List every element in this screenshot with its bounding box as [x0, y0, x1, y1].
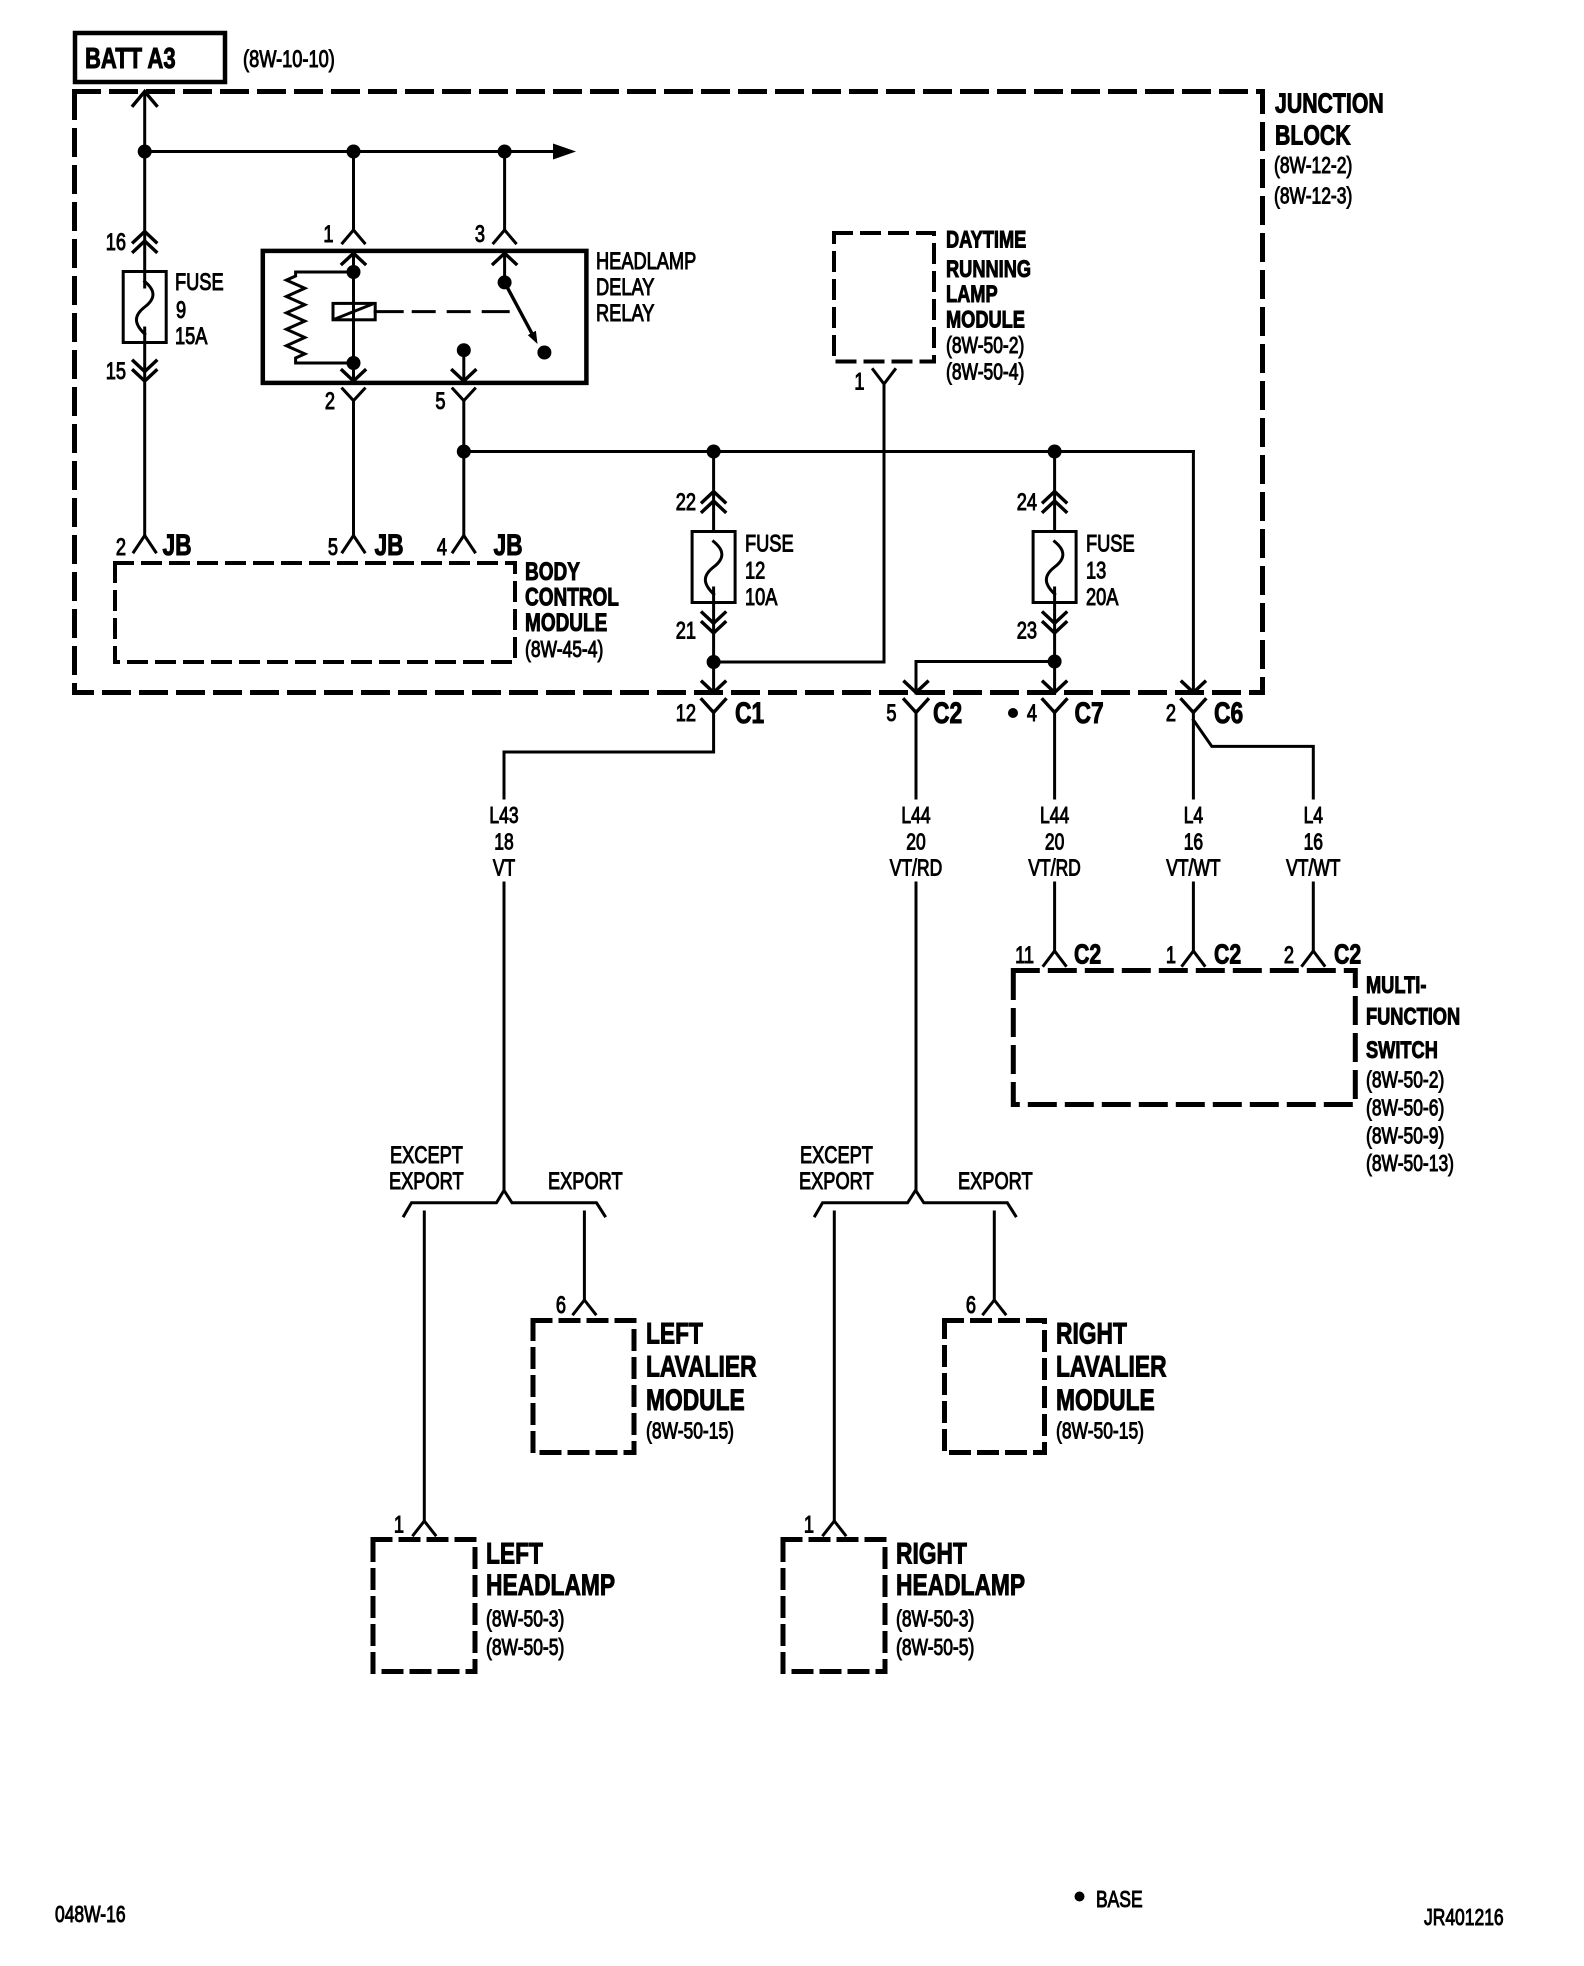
- svg-text:EXPORT: EXPORT: [958, 1168, 1033, 1195]
- svg-text:1: 1: [394, 1511, 404, 1538]
- svg-text:VT/RD: VT/RD: [890, 856, 942, 881]
- svg-text:(8W-50-5): (8W-50-5): [486, 1636, 564, 1661]
- svg-text:FUSE: FUSE: [175, 269, 224, 296]
- svg-text:2: 2: [1284, 942, 1294, 969]
- svg-text:FUSE: FUSE: [1086, 530, 1135, 557]
- svg-text:20: 20: [1045, 830, 1064, 855]
- svg-text:JUNCTION: JUNCTION: [1275, 88, 1384, 120]
- svg-text:DAYTIME: DAYTIME: [946, 226, 1026, 253]
- svg-text:(8W-12-3): (8W-12-3): [1274, 184, 1352, 209]
- svg-text:LEFT: LEFT: [486, 1536, 543, 1570]
- svg-text:11: 11: [1015, 942, 1034, 969]
- svg-text:(8W-50-2): (8W-50-2): [946, 334, 1024, 359]
- svg-text:L4: L4: [1304, 804, 1323, 829]
- svg-text:C2: C2: [933, 696, 962, 730]
- svg-text:MULTI-: MULTI-: [1366, 972, 1426, 999]
- svg-text:2: 2: [325, 388, 335, 415]
- svg-text:VT/RD: VT/RD: [1028, 856, 1080, 881]
- svg-text:EXCEPT: EXCEPT: [390, 1142, 463, 1169]
- svg-text:C7: C7: [1075, 696, 1104, 730]
- svg-text:(8W-50-15): (8W-50-15): [646, 1419, 734, 1444]
- svg-text:HEADLAMP: HEADLAMP: [896, 1568, 1025, 1602]
- svg-text:12: 12: [745, 557, 765, 584]
- svg-text:18: 18: [494, 830, 513, 855]
- svg-text:C2: C2: [1214, 939, 1241, 971]
- svg-text:15A: 15A: [175, 323, 208, 350]
- svg-text:MODULE: MODULE: [646, 1383, 745, 1417]
- svg-text:HEADLAMP: HEADLAMP: [486, 1568, 615, 1602]
- svg-text:21: 21: [676, 617, 696, 644]
- svg-text:(8W-50-3): (8W-50-3): [896, 1607, 974, 1632]
- svg-text:6: 6: [556, 1292, 566, 1319]
- svg-text:(8W-10-10): (8W-10-10): [243, 46, 335, 73]
- svg-text:RIGHT: RIGHT: [1056, 1316, 1127, 1350]
- svg-text:L4: L4: [1184, 804, 1203, 829]
- svg-text:RUNNING: RUNNING: [946, 256, 1031, 283]
- svg-text:LEFT: LEFT: [646, 1316, 703, 1350]
- svg-text:1: 1: [804, 1511, 814, 1538]
- svg-text:VT/WT: VT/WT: [1166, 856, 1220, 881]
- svg-text:JB: JB: [163, 528, 192, 562]
- svg-text:BLOCK: BLOCK: [1275, 120, 1351, 152]
- svg-text:1: 1: [323, 221, 333, 248]
- svg-text:20: 20: [906, 830, 925, 855]
- svg-text:(8W-50-13): (8W-50-13): [1366, 1152, 1454, 1177]
- svg-text:(8W-50-6): (8W-50-6): [1366, 1096, 1444, 1121]
- svg-text:JR401216: JR401216: [1424, 1906, 1504, 1931]
- svg-text:1: 1: [1166, 942, 1176, 969]
- svg-text:L44: L44: [901, 804, 930, 829]
- svg-text:LAVALIER: LAVALIER: [1056, 1349, 1167, 1383]
- svg-text:16: 16: [1304, 830, 1323, 855]
- svg-text:5: 5: [886, 700, 896, 727]
- svg-text:4: 4: [1027, 700, 1037, 727]
- svg-text:16: 16: [1184, 830, 1203, 855]
- svg-text:24: 24: [1017, 489, 1037, 516]
- svg-text:LAMP: LAMP: [946, 281, 998, 308]
- svg-text:CONTROL: CONTROL: [525, 583, 619, 611]
- svg-text:C2: C2: [1074, 939, 1101, 971]
- svg-text:LAVALIER: LAVALIER: [646, 1349, 757, 1383]
- svg-text:9: 9: [176, 297, 186, 324]
- svg-text:FUSE: FUSE: [745, 530, 794, 557]
- svg-text:(8W-50-9): (8W-50-9): [1366, 1124, 1444, 1149]
- svg-text:20A: 20A: [1086, 584, 1119, 611]
- svg-text:048W-16: 048W-16: [55, 1903, 126, 1928]
- svg-text:HEADLAMP: HEADLAMP: [596, 248, 696, 275]
- svg-text:4: 4: [437, 534, 447, 561]
- svg-text:BASE: BASE: [1096, 1888, 1143, 1913]
- svg-text:5: 5: [328, 534, 338, 561]
- svg-text:3: 3: [475, 221, 485, 248]
- svg-text:L43: L43: [489, 804, 518, 829]
- svg-text:VT: VT: [493, 856, 515, 881]
- svg-text:12: 12: [676, 700, 696, 727]
- svg-text:23: 23: [1017, 617, 1037, 644]
- svg-text:(8W-50-3): (8W-50-3): [486, 1607, 564, 1632]
- svg-text:C1: C1: [735, 696, 764, 730]
- svg-text:RIGHT: RIGHT: [896, 1536, 967, 1570]
- svg-text:22: 22: [676, 489, 696, 516]
- svg-text:MODULE: MODULE: [946, 306, 1025, 333]
- svg-text:(8W-50-15): (8W-50-15): [1056, 1419, 1144, 1444]
- svg-text:L44: L44: [1040, 804, 1069, 829]
- svg-text:16: 16: [106, 229, 126, 256]
- svg-text:2: 2: [1166, 700, 1176, 727]
- svg-text:BODY: BODY: [525, 557, 580, 585]
- svg-text:15: 15: [106, 358, 126, 385]
- svg-text:EXPORT: EXPORT: [799, 1168, 874, 1195]
- svg-text:DELAY: DELAY: [596, 274, 654, 301]
- svg-text:MODULE: MODULE: [525, 608, 607, 636]
- svg-text:1: 1: [854, 368, 864, 395]
- svg-text:10A: 10A: [745, 584, 778, 611]
- svg-text:EXPORT: EXPORT: [548, 1168, 623, 1195]
- svg-text:EXPORT: EXPORT: [389, 1168, 464, 1195]
- svg-text:RELAY: RELAY: [596, 300, 654, 327]
- svg-text:JB: JB: [494, 528, 523, 562]
- svg-text:MODULE: MODULE: [1056, 1383, 1155, 1417]
- svg-text:6: 6: [966, 1292, 976, 1319]
- svg-text:5: 5: [435, 388, 445, 415]
- svg-text:EXCEPT: EXCEPT: [800, 1142, 873, 1169]
- svg-text:BATT A3: BATT A3: [85, 43, 176, 75]
- svg-text:13: 13: [1086, 557, 1106, 584]
- svg-text:C2: C2: [1334, 939, 1361, 971]
- svg-text:(8W-50-4): (8W-50-4): [946, 360, 1024, 385]
- svg-text:VT/WT: VT/WT: [1286, 856, 1340, 881]
- svg-text:FUNCTION: FUNCTION: [1366, 1003, 1460, 1030]
- svg-text:(8W-12-2): (8W-12-2): [1274, 154, 1352, 179]
- svg-text:(8W-50-5): (8W-50-5): [896, 1636, 974, 1661]
- svg-text:JB: JB: [375, 528, 404, 562]
- svg-text:(8W-45-4): (8W-45-4): [525, 638, 603, 663]
- svg-text:SWITCH: SWITCH: [1366, 1037, 1438, 1064]
- svg-text:2: 2: [116, 534, 126, 561]
- svg-text:(8W-50-2): (8W-50-2): [1366, 1068, 1444, 1093]
- svg-text:C6: C6: [1214, 696, 1243, 730]
